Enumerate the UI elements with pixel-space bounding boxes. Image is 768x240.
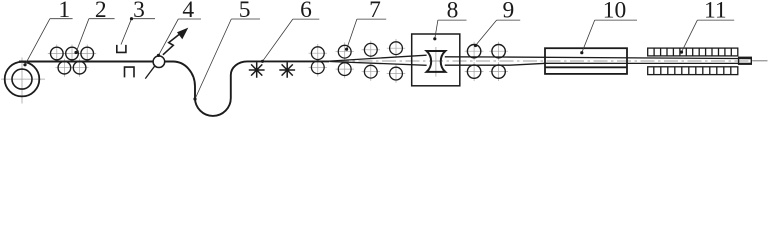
furnace 10 xyxy=(545,48,627,74)
straightener rollers 2 xyxy=(51,47,94,74)
coil 1 inner circle xyxy=(12,69,32,89)
leader 3 xyxy=(121,19,155,45)
welder 4 tail line xyxy=(145,66,154,78)
svg-text:4: 4 xyxy=(182,0,194,23)
svg-text:1: 1 xyxy=(58,0,70,23)
roller table 11 bottom row xyxy=(648,67,738,75)
centerline vertical die 8 xyxy=(435,47,437,77)
device 3 lower symbol pi-shape xyxy=(125,67,135,77)
welder 4 circle xyxy=(153,56,165,68)
strip end cap xyxy=(739,57,752,64)
svg-text:3: 3 xyxy=(133,0,145,23)
centerline crosses rolls 9 xyxy=(465,42,508,81)
leader 1 xyxy=(25,19,73,65)
leader 10 xyxy=(582,20,637,53)
svg-text:7: 7 xyxy=(369,0,381,23)
device 3 upper symbol open-top square xyxy=(117,45,126,53)
centerline crosses rolls 7 xyxy=(309,39,406,83)
furnace 10 hearth line xyxy=(545,66,627,68)
roller table 11 top row xyxy=(648,48,738,56)
leader 6 xyxy=(263,19,320,61)
leader 4 xyxy=(159,19,202,55)
pinch rolls 9 xyxy=(467,45,505,79)
centerline coil 1 vertical xyxy=(21,58,23,104)
centerline crosses rollers 2 xyxy=(48,45,96,77)
machine housing 8 xyxy=(412,34,460,86)
leader 7 xyxy=(347,19,387,49)
leader 5 xyxy=(195,19,260,99)
welder 4 arrowhead xyxy=(177,28,188,40)
svg-text:5: 5 xyxy=(239,0,251,23)
svg-text:2: 2 xyxy=(95,0,107,23)
leader 2 xyxy=(76,19,115,53)
wire line from coil through loop xyxy=(19,61,329,116)
strip wedge bottom edge xyxy=(330,62,427,66)
svg-text:8: 8 xyxy=(447,0,459,24)
leader 11 xyxy=(682,20,735,52)
strip bottom edge after die xyxy=(445,63,751,65)
centerline coil 1 horizontal xyxy=(1,78,45,80)
svg-text:6: 6 xyxy=(300,0,312,23)
coil 1 outer circle xyxy=(5,62,40,97)
strip top edge after die xyxy=(445,57,751,59)
leader 8 xyxy=(435,20,467,39)
svg-text:9: 9 xyxy=(503,0,515,24)
strip wedge top edge xyxy=(329,55,427,61)
welder 4 lightning arrow xyxy=(163,34,180,55)
die spool 8 xyxy=(427,51,446,72)
rolling stands 7 circles xyxy=(311,42,402,80)
strip dash-dot centerline xyxy=(335,60,750,62)
svg-text:10: 10 xyxy=(603,0,627,24)
spark symbol 6b xyxy=(279,62,295,78)
svg-text:11: 11 xyxy=(704,0,727,24)
leader 9 xyxy=(476,20,521,45)
spark symbol 6a xyxy=(249,62,265,78)
